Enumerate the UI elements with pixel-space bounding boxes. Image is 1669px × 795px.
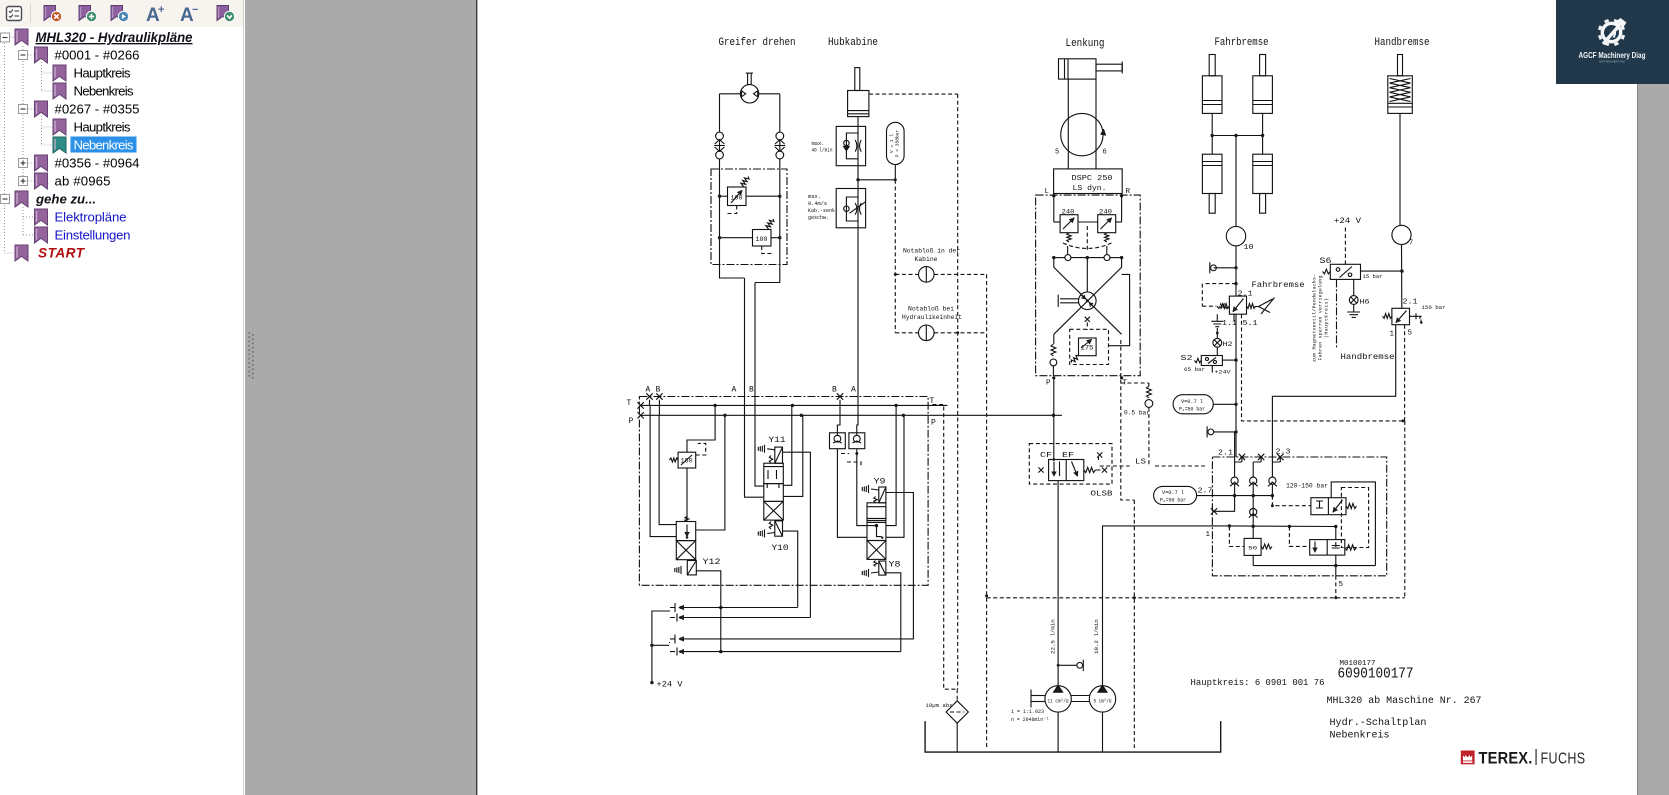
ground symbol H6 — [1347, 304, 1360, 317]
valve Y11/Y10 crossover — [764, 501, 784, 520]
inlet check with spring — [1051, 344, 1056, 356]
brake cylinder front right — [1253, 76, 1273, 114]
AGCF gear + hammer icon — [1599, 18, 1627, 45]
flow control valve V1 (max 40 l/min) — [836, 126, 865, 165]
junction to gauge — [856, 178, 859, 181]
orbitrol center circle — [1079, 292, 1097, 310]
svg-text:Lenkung: Lenkung — [1066, 38, 1105, 50]
supply line port 1 — [1229, 525, 1335, 528]
svg-text:+24V: +24V — [1215, 369, 1232, 376]
svg-text:Y10: Y10 — [772, 544, 789, 553]
T tap Y11 — [783, 405, 792, 485]
valve Y9 solenoid — [879, 487, 886, 503]
brake cylinder manifold wires — [1211, 113, 1213, 154]
pilot tap to handbrake logic (dashed) — [1202, 284, 1236, 307]
svg-text:AGCF MACHINERY DIAG: AGCF MACHINERY DIAG — [1599, 60, 1625, 64]
svg-text:+24 V: +24 V — [657, 681, 683, 690]
svg-text:T: T — [627, 399, 632, 408]
big pilot frame right (dashed) — [1404, 421, 1406, 598]
wire B to valve Y11 — [755, 283, 764, 487]
svg-text:+: + — [158, 4, 164, 16]
pilot check square A — [849, 433, 865, 449]
svg-text:START: START — [38, 246, 86, 261]
feed line 3 from handbrake — [1272, 325, 1395, 477]
svg-text:11 cm³/U: 11 cm³/U — [1048, 699, 1069, 705]
valve Y12 crossover box — [676, 541, 695, 560]
svg-text:FUCHS: FUCHS — [1541, 751, 1586, 768]
valve Y10 solenoid — [775, 521, 783, 536]
svg-text:2.1: 2.1 — [1218, 450, 1234, 458]
pilot to cut-off (dashed) — [1272, 496, 1311, 506]
check valve pair left (Greifer) — [716, 132, 724, 140]
svg-text:MHL320 ab Maschine Nr. 267: MHL320 ab Maschine Nr. 267 — [1327, 695, 1482, 707]
valve Y11 body lower — [764, 484, 784, 502]
svg-text:Y9: Y9 — [874, 478, 886, 487]
control valve block enclosure — [639, 397, 928, 586]
R wrap line — [1108, 274, 1129, 345]
priority valve body — [1049, 460, 1084, 481]
svg-text:n = 2046min⁻¹: n = 2046min⁻¹ — [1011, 716, 1049, 723]
wire cylinder to steering wheel — [1067, 79, 1069, 169]
wire cylinder down — [857, 117, 859, 189]
test port coupling — [1214, 267, 1237, 269]
P tap Y9 — [886, 415, 904, 537]
wire Greifer B to block — [755, 265, 780, 283]
svg-text:Nebenkreis: Nebenkreis — [1330, 730, 1390, 742]
wire +24V to S6 (dashed) — [1344, 228, 1346, 265]
svg-text:B: B — [749, 386, 754, 395]
svg-text:5: 5 — [1055, 149, 1059, 157]
wire A to valve Y11 — [745, 278, 764, 497]
relief valve R2 100 bar — [753, 230, 772, 247]
feed line 2 — [1252, 462, 1254, 477]
svg-text:S2: S2 — [1181, 355, 1193, 363]
svg-text:i = 1:1.023: i = 1:1.023 — [1011, 708, 1044, 715]
pump2 output riser — [1103, 526, 1230, 686]
sidebar border — [243, 0, 244, 795]
svg-text:A: A — [646, 386, 651, 395]
drain collector (dashed) — [987, 597, 1405, 599]
emergency line right (dashed) — [957, 94, 959, 689]
svg-text:5 cm³/U: 5 cm³/U — [1094, 699, 1112, 705]
relief valve 175 — [1079, 338, 1097, 356]
svg-text:1: 1 — [1390, 331, 1395, 339]
pilot line R2 (dashed) — [762, 246, 772, 254]
relief valve block (dash-dot enclosure) — [711, 169, 787, 265]
svg-text:2.7: 2.7 — [1198, 488, 1213, 496]
svg-text:1.1: 1.1 — [1222, 320, 1238, 328]
section feed P — [696, 415, 725, 530]
row Nebenkreis 1 — [53, 83, 66, 99]
pilot line cylinder to emergency net (dashed) — [869, 93, 958, 95]
svg-text:V=0.7 l: V=0.7 l — [1181, 399, 1203, 405]
check valve 0.5 bar — [1121, 383, 1149, 386]
svg-text:A: A — [732, 386, 737, 395]
pump 2 (5 cm3/U) — [1089, 686, 1115, 712]
svg-text:LS dyn.: LS dyn. — [1073, 185, 1107, 193]
valve Y9 body lower — [867, 519, 886, 541]
valve Y11 body upper — [764, 463, 784, 483]
pilot dashes between squares — [841, 453, 849, 455]
svg-text:H6: H6 — [1360, 299, 1371, 306]
wire cut-off valve — [1335, 527, 1337, 540]
pilot from port 5.1 (dashed) — [1242, 314, 1405, 421]
svg-text:max.: max. — [808, 193, 821, 200]
TEREX FUCHS logo — [1461, 751, 1475, 765]
toolbar icon: goto bookmark — [111, 6, 123, 21]
P tap Y11 — [783, 415, 803, 496]
T tap Y9 — [886, 405, 896, 525]
svg-text:Fahrbremse: Fahrbremse — [1215, 37, 1269, 49]
wire row Y9 — [683, 638, 914, 640]
steering unit DSPC 250 — [1054, 169, 1123, 194]
valve Y11 solenoid — [775, 447, 783, 463]
svg-text:65 bar: 65 bar — [1184, 366, 1205, 373]
svg-text:(Hauptkreis): (Hauptkreis) — [1324, 298, 1330, 338]
wire Y9 solenoid — [886, 493, 914, 639]
svg-text:150 bar: 150 bar — [1422, 304, 1446, 311]
svg-text:Handbremse: Handbremse — [1341, 353, 1395, 362]
svg-text:Hauptkreis: 6 0901 001 76: Hauptkreis: 6 0901 001 76 — [1191, 678, 1325, 688]
svg-text:100: 100 — [756, 236, 768, 243]
svg-text:10.2 l/min: 10.2 l/min — [1093, 619, 1100, 654]
pilot box 150 (dashed) — [696, 443, 706, 455]
toolbar icon: delete bookmark — [44, 6, 56, 21]
wire relief R2 — [720, 237, 753, 239]
svg-text:AGCF Machinery Diag: AGCF Machinery Diag — [1579, 51, 1646, 60]
svg-text:Notabloß in der: Notabloß in der — [903, 248, 960, 255]
svg-text:#0267 - #0355: #0267 - #0355 — [55, 102, 140, 117]
check valve pair right (Greifer) — [776, 132, 784, 140]
splitter handle dots — [249, 332, 254, 379]
AGCF logo box — [1556, 0, 1669, 84]
gray canvas between sidebar and page — [245, 0, 477, 795]
emergency drain line (dashed) — [986, 274, 988, 748]
svg-text:2.1: 2.1 — [1403, 299, 1419, 307]
brake pedal symbol — [1256, 298, 1275, 315]
svg-text:LS: LS — [1135, 459, 1147, 467]
handbrake valve — [1392, 308, 1410, 324]
row #0001 - #0266 — [19, 51, 28, 60]
priority valve spring — [1084, 467, 1096, 472]
toolbar icon: add bookmark — [79, 6, 91, 21]
dashed links hand pump Kabine — [895, 273, 918, 275]
T drain steering (dashed) — [1121, 340, 1135, 748]
metering pilot arc (dashed) — [1063, 243, 1112, 249]
row Hauptkreis 2 — [53, 119, 66, 135]
svg-text:Nebenkreis: Nebenkreis — [74, 138, 134, 153]
svg-text:Notabloß bei: Notabloß bei — [908, 306, 954, 313]
row ab #0965 — [19, 177, 28, 186]
svg-text:B: B — [656, 386, 661, 395]
tree connector lines — [4, 43, 6, 253]
warning lamp H2 — [1216, 328, 1218, 338]
section feed T to relief 150 — [687, 405, 715, 452]
toolbar icon: bookmark list panel — [7, 7, 22, 21]
valve Y9/Y8 crossover — [867, 541, 886, 560]
svg-text:6: 6 — [1103, 149, 1107, 157]
pilot to cut-off lower (dashed) — [1289, 527, 1309, 547]
steering valve enclosure (dash-dot) — [1036, 195, 1141, 376]
accumulator V=0.7l upper — [1173, 395, 1213, 414]
svg-text:7: 7 — [1409, 240, 1413, 248]
svg-text:Hydr.-Schaltplan: Hydr.-Schaltplan — [1330, 717, 1427, 729]
wire relief to valve Y12 — [686, 468, 688, 521]
svg-text:DSPC 250: DSPC 250 — [1072, 175, 1113, 183]
svg-text:A: A — [851, 386, 856, 395]
vent symbol — [1211, 314, 1223, 327]
svg-text:6090100177: 6090100177 — [1338, 666, 1414, 683]
svg-text:Y12: Y12 — [703, 558, 721, 567]
wire Greifer A to block — [720, 265, 745, 279]
wire Y12 solenoid — [696, 571, 721, 652]
hydraulic motor Greifer drehen — [740, 85, 758, 103]
row START — [15, 245, 28, 261]
feed line 1 — [1234, 432, 1236, 477]
inner loop wire Y12 — [659, 415, 676, 524]
svg-text:Y11: Y11 — [769, 436, 786, 445]
svg-text:zum Magnetventil/Pendelachs-: zum Magnetventil/Pendelachs- — [1312, 274, 1318, 362]
wire B branch to valve Y9 — [837, 449, 867, 538]
svg-text:Nebenkreis: Nebenkreis — [74, 84, 134, 99]
valve Y12 spring — [685, 517, 689, 522]
pilot check square B — [830, 433, 846, 449]
steering wheel circle — [1061, 113, 1103, 155]
svg-text:Elektropläne: Elektropläne — [55, 210, 127, 225]
row #0267 - #0355 — [19, 105, 28, 114]
steering cylinder — [1059, 59, 1097, 79]
wire P steering down to priority valve — [1053, 378, 1055, 460]
svg-text:2.1: 2.1 — [1238, 291, 1254, 299]
detent release symbol — [1410, 313, 1422, 322]
row gehe zu — [1, 195, 10, 204]
svg-text:MHL320 - Hydraulikpläne: MHL320 - Hydraulikpläne — [36, 30, 193, 45]
foot brake valve — [1229, 296, 1246, 314]
gauge port 10 — [1226, 226, 1245, 245]
wire motor right leg — [779, 94, 781, 132]
svg-text:0.5 bar: 0.5 bar — [1124, 410, 1150, 417]
pilot box right (dashed) — [1341, 488, 1368, 548]
wire A branch to valve Y9 — [857, 449, 877, 526]
hand pump symbol Kabine — [919, 267, 935, 283]
svg-text:P: P — [1046, 380, 1051, 388]
wire inside relief block left — [719, 169, 721, 265]
svg-text:+24 V: +24 V — [1334, 217, 1361, 226]
row Einstellungen — [35, 227, 48, 243]
wire inside relief block right — [779, 169, 781, 265]
svg-text:5.1: 5.1 — [1243, 320, 1259, 328]
pilot line to main circuit (dash-dot) — [1336, 279, 1338, 348]
brake cylinder front left — [1202, 76, 1222, 114]
svg-text:Kab.-senk: Kab.-senk — [808, 207, 836, 214]
svg-text:5: 5 — [1408, 330, 1413, 338]
switch contacts S lower — [669, 635, 675, 644]
svg-text:P: P — [931, 419, 936, 428]
wire to relief block — [719, 159, 721, 169]
svg-text:CF: CF — [1040, 452, 1052, 460]
row Nebenkreis selected — [53, 137, 66, 153]
svg-text:Hydraulikeinheit: Hydraulikeinheit — [902, 314, 962, 321]
wire 240s — [1054, 221, 1060, 223]
brake unit enclosure (dash-dot) — [1212, 457, 1386, 576]
svg-text:V = 1 l: V = 1 l — [889, 134, 895, 154]
svg-text:50: 50 — [1248, 545, 1257, 552]
brake cylinder rear right — [1253, 154, 1273, 193]
row Hauptkreis 1 — [53, 65, 66, 81]
svg-text:100: 100 — [731, 195, 743, 202]
svg-text:Einstellungen: Einstellungen — [55, 228, 131, 243]
svg-text:Fahrbremse: Fahrbremse — [1252, 281, 1305, 290]
right gray strip — [1638, 0, 1669, 795]
svg-text:40 l/min: 40 l/min — [812, 147, 833, 154]
svg-text:Hauptkreis: Hauptkreis — [74, 120, 131, 135]
svg-text:EF: EF — [1062, 452, 1074, 460]
valve Y12 inlet box — [676, 522, 695, 541]
svg-text:Hubkabine: Hubkabine — [828, 37, 878, 49]
toolbar — [0, 0, 243, 27]
charge valve loop wire — [1253, 482, 1375, 566]
svg-text:120-150 bar: 120-150 bar — [1286, 483, 1328, 490]
wire S6 to handbrake line — [1361, 270, 1403, 272]
svg-text:22.5 l/min: 22.5 l/min — [1050, 619, 1057, 654]
hand pump symbol Hydraulikeinheit — [919, 325, 935, 341]
svg-text:0.4m/s: 0.4m/s — [808, 200, 827, 207]
Hubkabine cylinder — [855, 68, 860, 91]
wires L R into block — [1053, 194, 1055, 223]
svg-text:Handbremse: Handbremse — [1375, 37, 1430, 49]
rail junctions — [713, 404, 716, 407]
wire Hubkabine to block port A — [857, 228, 858, 433]
priority valve enclosure (dashed) — [1029, 444, 1112, 485]
cut-off valve lower — [1310, 540, 1345, 556]
svg-text:Y8: Y8 — [889, 561, 901, 570]
handbrake line — [1399, 113, 1401, 225]
relief valve R1 100 bar — [728, 187, 747, 206]
plugged port X left — [1212, 496, 1234, 512]
gauge port 7 — [1392, 225, 1411, 244]
service brake supply line — [1235, 136, 1237, 227]
wire motor ports — [720, 93, 741, 95]
svg-text:Pₒ=50 bar: Pₒ=50 bar — [1160, 498, 1186, 504]
pilot line R1 (dashed) — [727, 206, 737, 214]
page left divider line — [476, 0, 477, 795]
dashed links hand pump Hydraulikeinheit — [895, 332, 918, 334]
svg-text:Greifer drehen: Greifer drehen — [719, 37, 796, 49]
valve Y12 solenoid — [687, 561, 696, 575]
accumulator V=0.7l lower — [1154, 486, 1197, 504]
wire row Y10 — [683, 617, 810, 619]
left loop wire — [650, 405, 676, 536]
T drain to tank (dashed) — [933, 405, 958, 690]
relief valve 150 bar — [678, 452, 696, 468]
test port coupling 2 — [1214, 431, 1236, 433]
toolbar icon: bookmark options — [217, 6, 229, 21]
wire S2 to line — [1222, 359, 1236, 361]
svg-text:5: 5 — [1339, 581, 1344, 589]
svg-text:−: − — [192, 4, 198, 16]
lamp H6 — [1353, 279, 1355, 295]
wire to pressure gauge — [858, 179, 895, 181]
relief 50 — [1252, 527, 1254, 539]
pressure switch S2 — [1216, 347, 1218, 355]
svg-text:10µm abs: 10µm abs — [926, 702, 953, 709]
wire brake valve down — [1235, 314, 1237, 457]
orbitrol rotary metering X — [1054, 258, 1122, 335]
wire row Y8 — [683, 651, 901, 653]
svg-text:B: B — [832, 386, 837, 395]
suction lines to tank — [1057, 712, 1059, 752]
wire Y11 solenoid — [783, 452, 811, 617]
root row MHL320 — [1, 33, 10, 42]
LS line (dashed) — [1100, 465, 1205, 467]
handbrake pilot return (dashed) — [1404, 325, 1406, 421]
wire Y8 solenoid — [886, 573, 901, 652]
svg-text:Fahren sperren verriegelung: Fahren sperren verriegelung — [1318, 275, 1324, 360]
emergency branch from gauge node (dashed) — [894, 180, 896, 333]
accumulator charge valve upper — [1311, 498, 1346, 515]
svg-text:H2: H2 — [1223, 341, 1234, 348]
T rail — [641, 404, 948, 406]
check valve 2.x lower — [1252, 496, 1254, 527]
svg-text:TEREX.: TEREX. — [1479, 750, 1533, 768]
svg-text:ab #0965: ab #0965 — [55, 174, 111, 189]
svg-text:Pₒ=50 bar: Pₒ=50 bar — [1179, 407, 1205, 413]
svg-text:Hauptkreis: Hauptkreis — [74, 66, 131, 81]
svg-text:#0001 - #0266: #0001 - #0266 — [55, 48, 140, 63]
pressure gauge oval V=1l — [887, 122, 905, 164]
+24V supply wire — [652, 611, 669, 683]
wire priority valve to pump — [1057, 481, 1059, 686]
brake cylinder rear left — [1202, 154, 1222, 193]
svg-text:15 bar: 15 bar — [1363, 273, 1383, 280]
svg-text:10: 10 — [1244, 244, 1254, 252]
wire row Y11 — [683, 607, 797, 609]
lowering brake valve V2 (max 0.4 m/s) — [836, 189, 865, 228]
relief valve 175 pilot box (dashed) — [1070, 329, 1109, 364]
svg-text:V=0.7 l: V=0.7 l — [1162, 490, 1184, 496]
svg-text:175: 175 — [1081, 345, 1094, 352]
switch contacts S upper — [669, 603, 675, 612]
wire Y10 solenoid — [783, 531, 798, 607]
svg-text:#0356 - #0964: #0356 - #0964 — [55, 156, 140, 171]
svg-text:1: 1 — [1206, 531, 1211, 539]
row #0356 - #0964 — [19, 159, 28, 168]
svg-text:P: P — [629, 417, 634, 426]
check valves steering bridge — [1054, 257, 1065, 259]
check valves row — [1231, 477, 1238, 484]
pump shaft — [1031, 695, 1045, 697]
svg-text:OLSB: OLSB — [1091, 491, 1113, 499]
orbitrol handle — [1060, 298, 1079, 300]
P rail — [641, 414, 1062, 416]
valve Y8 solenoid — [879, 561, 886, 575]
handbrake spring cylinder — [1388, 76, 1413, 114]
port plugs X on top edge — [1239, 454, 1245, 460]
svg-text:P = 350bar: P = 350bar — [895, 129, 901, 157]
svg-text:gehe zu...: gehe zu... — [35, 192, 96, 207]
pump1 test port — [1058, 664, 1076, 666]
svg-text:geschw.: geschw. — [808, 214, 829, 221]
bookmark tree — [1, 29, 193, 261]
tank — [925, 721, 1221, 752]
svg-text:Kabine: Kabine — [915, 256, 938, 263]
wire relief R1 — [720, 195, 728, 197]
accumulator bus wire — [1197, 495, 1273, 497]
pump 1 (11 cm3/U) — [1045, 686, 1071, 712]
wire motor left leg — [719, 94, 721, 132]
row Elektroplaene — [35, 209, 48, 225]
valve Y9 body upper — [867, 503, 886, 519]
